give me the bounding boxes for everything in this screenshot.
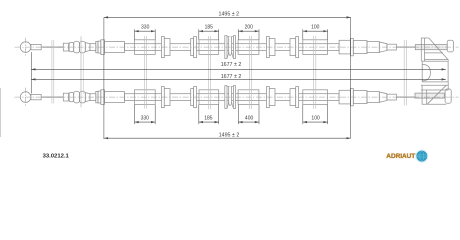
dimension 185 bottom (198, 105, 200, 125)
mounting bracket middle plate (422, 61, 448, 82)
upper cable bulkhead body 1a (164, 39, 170, 56)
upper cable boot taper (85, 43, 90, 52)
grommet D centre line pair (313, 36, 315, 109)
lower cable boot taper (85, 93, 90, 102)
grommet A centre line pair (143, 36, 145, 109)
lower cable boot collar (63, 93, 68, 101)
upper cable bulkhead flange 2a (266, 37, 269, 58)
upper cable boot collar (63, 43, 68, 51)
lower cable neck cylinder (90, 94, 96, 101)
lower cable grommet B (199, 90, 219, 105)
mounting bracket lower plate (422, 85, 446, 104)
lower cable bulkhead flange 2b (296, 87, 299, 108)
lower cable abutment washer (96, 91, 98, 102)
svg-text:1495 ± 2: 1495 ± 2 (219, 11, 240, 17)
svg-text:100: 100 (311, 115, 320, 121)
svg-text:33.0212.1: 33.0212.1 (43, 153, 70, 159)
dimension 1677+-2 upper (31, 68, 446, 70)
upper cable end rod (415, 45, 447, 50)
ADRIAUTO logo globe grid (417, 151, 427, 161)
svg-text:185: 185 (204, 115, 213, 121)
left scan edge artifact (0, 88, 2, 137)
lower cable eyelet end (20, 92, 31, 103)
svg-text:1677 ± 2: 1677 ± 2 (221, 74, 242, 80)
lower cable end tip (387, 94, 397, 100)
lower cable end flange (350, 88, 353, 105)
upper cable bulkhead flange 1b (194, 37, 197, 58)
lower cable end taper (379, 92, 387, 102)
upper cable bulkhead body 2a (269, 39, 275, 56)
dimension 185 top (198, 29, 200, 40)
upper cable bulkhead flange 2b (296, 37, 299, 58)
upper cable eyelet end (20, 42, 31, 53)
lower cable bulkhead body 2a (269, 89, 275, 106)
upper cable bulkhead flange 1a (161, 37, 164, 58)
mounting bracket lower band (421, 84, 449, 86)
svg-text:185: 185 (205, 25, 214, 31)
upper cable bulkhead body 1b (191, 39, 194, 56)
lower cable bare inner wire left (41, 96, 63, 98)
lower cable end sleeve (339, 90, 350, 104)
mounting bracket top gusset diagonal (429, 38, 449, 61)
extension line x351 (350, 17, 352, 138)
lower cable grommet C (238, 90, 259, 105)
extension line x31 for overall dims (30, 52, 32, 94)
mounting bracket top flange (421, 38, 429, 61)
dimension 1677+-2 lower (31, 78, 446, 80)
upper cable grommet D (303, 40, 328, 55)
dimension 100 top (302, 29, 304, 40)
lower cable housing sleeve (104, 92, 124, 103)
lower cable bulkhead flange 1a (161, 87, 164, 108)
upper cable abutment flange (101, 40, 105, 55)
svg-text:330: 330 (141, 115, 150, 121)
lower cable end cap (367, 92, 379, 103)
grommet C centre line pair (248, 36, 250, 109)
lower cable bulkhead body 1a (164, 89, 170, 106)
lower cable grommet D (303, 90, 328, 105)
upper cable bulkhead body 2b (290, 39, 296, 56)
lower cable bulkhead body 2b (290, 89, 296, 106)
upper cable abutment ring (98, 41, 101, 53)
upper cable eyelet ferrule (31, 44, 41, 49)
lower cable eyelet ferrule (31, 94, 41, 99)
dimension 200 top (237, 29, 239, 40)
upper cable saddle guide (225, 36, 227, 59)
upper cable end flange (350, 38, 353, 55)
lower cable end rod (415, 93, 444, 98)
upper cable grommet C (238, 40, 259, 55)
lower cable saddle guide (225, 86, 227, 109)
upper cable grommet A (135, 40, 156, 55)
lower cable end cylinder (353, 91, 367, 104)
mounting bracket lower gusset diagonal (427, 85, 446, 104)
reference line pair at x52 (51, 40, 53, 104)
reference line pair at x405 (403, 40, 405, 105)
svg-text:400: 400 (245, 115, 254, 121)
upper cable rubber bellows (69, 43, 74, 52)
extension line x104 (103, 17, 105, 139)
ADRIAUTO logo globe halo (415, 150, 428, 163)
lower cable outer conduit (125, 94, 340, 101)
dimension 1495+-2 top (104, 16, 351, 18)
lower cable bulkhead body 1b (191, 89, 194, 106)
lower cable grommet A (135, 90, 156, 105)
svg-text:330: 330 (141, 25, 150, 31)
upper cable abutment washer (96, 41, 98, 52)
lower cable bulkhead flange 1b (194, 87, 197, 108)
lower cable end barrel (445, 89, 451, 103)
upper cable end sleeve (339, 40, 350, 54)
lower cable abutment ring (98, 91, 101, 103)
lower cable rubber bellows (69, 93, 74, 102)
mounting bracket saddle notch (422, 64, 430, 80)
lower cable bare inner wire right (396, 96, 415, 98)
upper cable end tip (387, 44, 397, 50)
dimension 330 bottom (134, 105, 136, 125)
dimension 1495+-2 bottom (104, 137, 351, 139)
svg-text:1677 ± 2: 1677 ± 2 (221, 62, 242, 68)
lower cable bulkhead flange 2a (266, 87, 269, 108)
lower cable centreline (15, 96, 459, 98)
lower cable eyelet vertical crosshair (25, 88, 27, 107)
svg-text:200: 200 (245, 25, 254, 31)
reference line at x81 (80, 36, 82, 107)
upper cable end taper (379, 42, 387, 52)
upper cable bare inner wire right (396, 46, 415, 48)
upper cable housing sleeve (104, 42, 124, 53)
svg-text:100: 100 (311, 25, 320, 31)
dimension 400 bottom (237, 105, 239, 125)
svg-text:1495 ± 2: 1495 ± 2 (219, 133, 240, 139)
upper cable end cylinder (353, 41, 367, 54)
grommet B centre line pair (207, 36, 209, 109)
dimension 330 top (134, 29, 136, 40)
upper cable neck cylinder (90, 44, 96, 51)
upper cable bare inner wire left (41, 46, 63, 48)
upper cable end cap (367, 42, 379, 53)
ADRIAUTO logo globe (417, 151, 427, 161)
svg-text:ADRIAUT: ADRIAUT (386, 153, 415, 160)
upper cable outer conduit (125, 44, 340, 51)
upper cable centreline (15, 46, 459, 48)
upper cable end barrel (447, 40, 453, 52)
dimension 100 bottom (302, 105, 304, 125)
upper cable grommet B (199, 40, 219, 55)
upper cable eyelet vertical crosshair (25, 38, 27, 57)
lower cable abutment flange (101, 90, 105, 105)
